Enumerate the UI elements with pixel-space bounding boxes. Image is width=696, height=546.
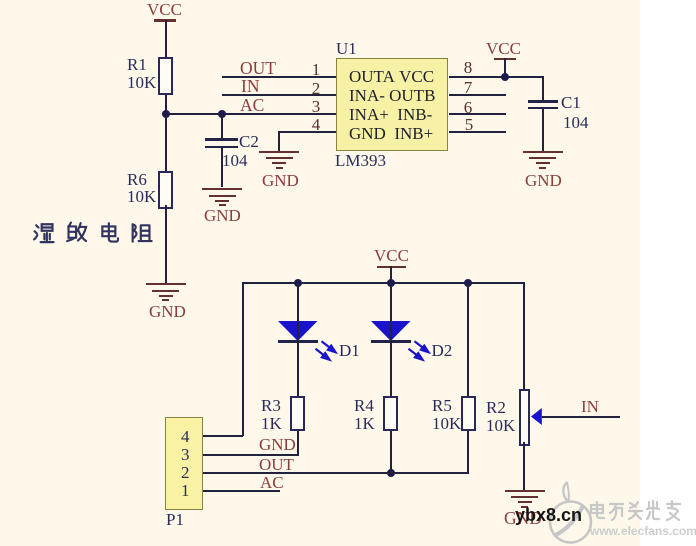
label C1 value 104 [563, 114, 589, 132]
wire R3 to P1 pin3 [297, 431, 299, 455]
pin number 8 [460, 59, 476, 76]
LED D2 wire through [390, 321, 392, 396]
wire rail right leg down to R2 [523, 282, 525, 389]
potentiometer R2 body [519, 389, 530, 446]
label C2 value 104 [222, 152, 248, 170]
power VCC top-left text [147, 1, 182, 19]
node junction C2 [218, 110, 226, 118]
net label AC [240, 96, 264, 114]
capacitor C2 plates [205, 138, 238, 141]
label D1 [339, 342, 360, 360]
ground symbol left [146, 283, 186, 285]
pin number 7 [460, 79, 476, 96]
LED D2 triangle [368, 320, 414, 346]
wire pin4 stub [279, 131, 336, 133]
net label IN [241, 77, 259, 95]
label GND R2 [504, 509, 542, 527]
resistor R1 [158, 57, 173, 95]
ground symbol C1 [523, 151, 563, 153]
net label GND P1 [259, 436, 296, 454]
potentiometer R2 wiper arrow [530, 404, 548, 428]
wire VCC bottom stub [390, 266, 392, 283]
wire R2 to ground [523, 442, 525, 490]
LED D2 emission arrows [407, 338, 441, 370]
U1 pin names [349, 67, 435, 144]
pin number 4 [308, 116, 324, 133]
connector P1 box [165, 417, 203, 510]
label U1 [336, 40, 357, 58]
net label IN [581, 398, 599, 416]
pin number 7 stub [449, 94, 506, 96]
resistor R6 [158, 171, 173, 209]
wire C1 to ground [542, 109, 544, 151]
LED D1 cathode bar [278, 340, 318, 343]
ground symbol C2 [202, 188, 242, 190]
wire VCC right stub [504, 58, 506, 77]
P1 pin number 3 [181, 446, 190, 464]
label GND pin4 [262, 172, 299, 190]
label C1 [561, 94, 581, 112]
net label AC P1 [260, 474, 284, 492]
label P1 [166, 511, 184, 529]
label R4 value [354, 397, 375, 432]
wire P1 pin1 AC [203, 490, 280, 492]
op-amp U1 box [336, 58, 448, 151]
wire R5 branch down [467, 283, 469, 396]
pin number 6 stub [449, 113, 506, 115]
wire node to R6 [165, 113, 167, 171]
pin number 6 [460, 99, 476, 116]
label LM393 [335, 152, 386, 170]
ground symbol pin4 [259, 151, 299, 153]
wire top rail bottom circuit [242, 282, 525, 284]
power VCC bottom bar [377, 266, 406, 269]
wire P1 pin4 [203, 435, 243, 437]
node rail VCC/D2 [387, 279, 395, 287]
wire pin4 down to ground [278, 131, 280, 151]
LED D1 wire through [297, 321, 299, 396]
capacitor C1 wire top [542, 76, 544, 101]
resistor R5 [461, 396, 476, 431]
ground symbol R2 [505, 490, 545, 492]
wire IN to wiper [542, 416, 620, 418]
wire node AC horizontal [165, 113, 336, 115]
wire R1 to node [165, 95, 167, 114]
node rail D1 [294, 279, 302, 287]
wire P1 pin2 OUT [203, 472, 469, 474]
white margin strip right [640, 0, 696, 546]
wire pin8 to VCC and C1 [449, 76, 543, 78]
label R2 value [486, 399, 515, 434]
LED D1 wire anode [297, 283, 299, 321]
net label OUT P1 [259, 456, 294, 474]
node junction R1/R6 [162, 110, 170, 118]
wire rail left leg down to P1 pin4 [242, 282, 244, 436]
wire C2 to ground [221, 148, 223, 187]
wire R4 down to OUT wire [390, 431, 392, 474]
watermark text www.elecfans.com [590, 524, 696, 538]
wire pin2 IN stub [222, 94, 336, 96]
pin number 3 [308, 98, 324, 115]
wire P1 pin3 [203, 454, 299, 456]
capacitor C2 wire from node [221, 113, 223, 138]
P1 pin number 4 [181, 428, 190, 446]
watermark hanzi 电子发烧友 [588, 499, 683, 523]
wire VCC to R1 [165, 20, 167, 57]
LED D2 wire anode [390, 283, 392, 321]
pin number 5 [461, 116, 477, 133]
P1 pin number 1 [181, 482, 190, 500]
label R3 value [261, 397, 282, 432]
resistor R4 [383, 396, 398, 431]
wire pin1 OUT stub [222, 76, 336, 78]
node junction VCC pin8 [501, 73, 509, 81]
LED D1 triangle [275, 320, 321, 346]
pin number 5 stub [449, 131, 506, 133]
label GND C2 [204, 207, 241, 225]
power VCC bottom text [374, 247, 409, 265]
label R6 value [127, 171, 156, 206]
label R1 value [127, 56, 156, 91]
node R4/OUT junction [387, 469, 395, 477]
watermark text ybx8.cn [515, 505, 582, 526]
label GND C1 [525, 172, 562, 190]
power VCC right bar [494, 58, 516, 61]
LED D2 cathode bar [371, 340, 411, 343]
label 湿敏电阻 (SVG hanzi) [33, 221, 163, 247]
capacitor C1 plates [528, 100, 558, 103]
node rail R5 [464, 279, 472, 287]
wire R5 down to OUT wire [467, 431, 469, 474]
pin number 1 [308, 61, 324, 78]
label C2 [239, 133, 259, 151]
LED D1 emission arrows [314, 338, 348, 370]
label D2 [432, 342, 453, 360]
label R5 value [432, 397, 461, 432]
P1 pin number 2 [181, 464, 190, 482]
net label OUT [240, 59, 276, 77]
power VCC top-left bar [154, 19, 176, 22]
watermark swirl logo [546, 479, 598, 546]
label GND left [149, 303, 186, 321]
pin number 2 [308, 80, 324, 97]
power VCC right text [486, 40, 521, 58]
resistor R3 [290, 396, 305, 431]
wire R6 to ground [165, 205, 167, 284]
